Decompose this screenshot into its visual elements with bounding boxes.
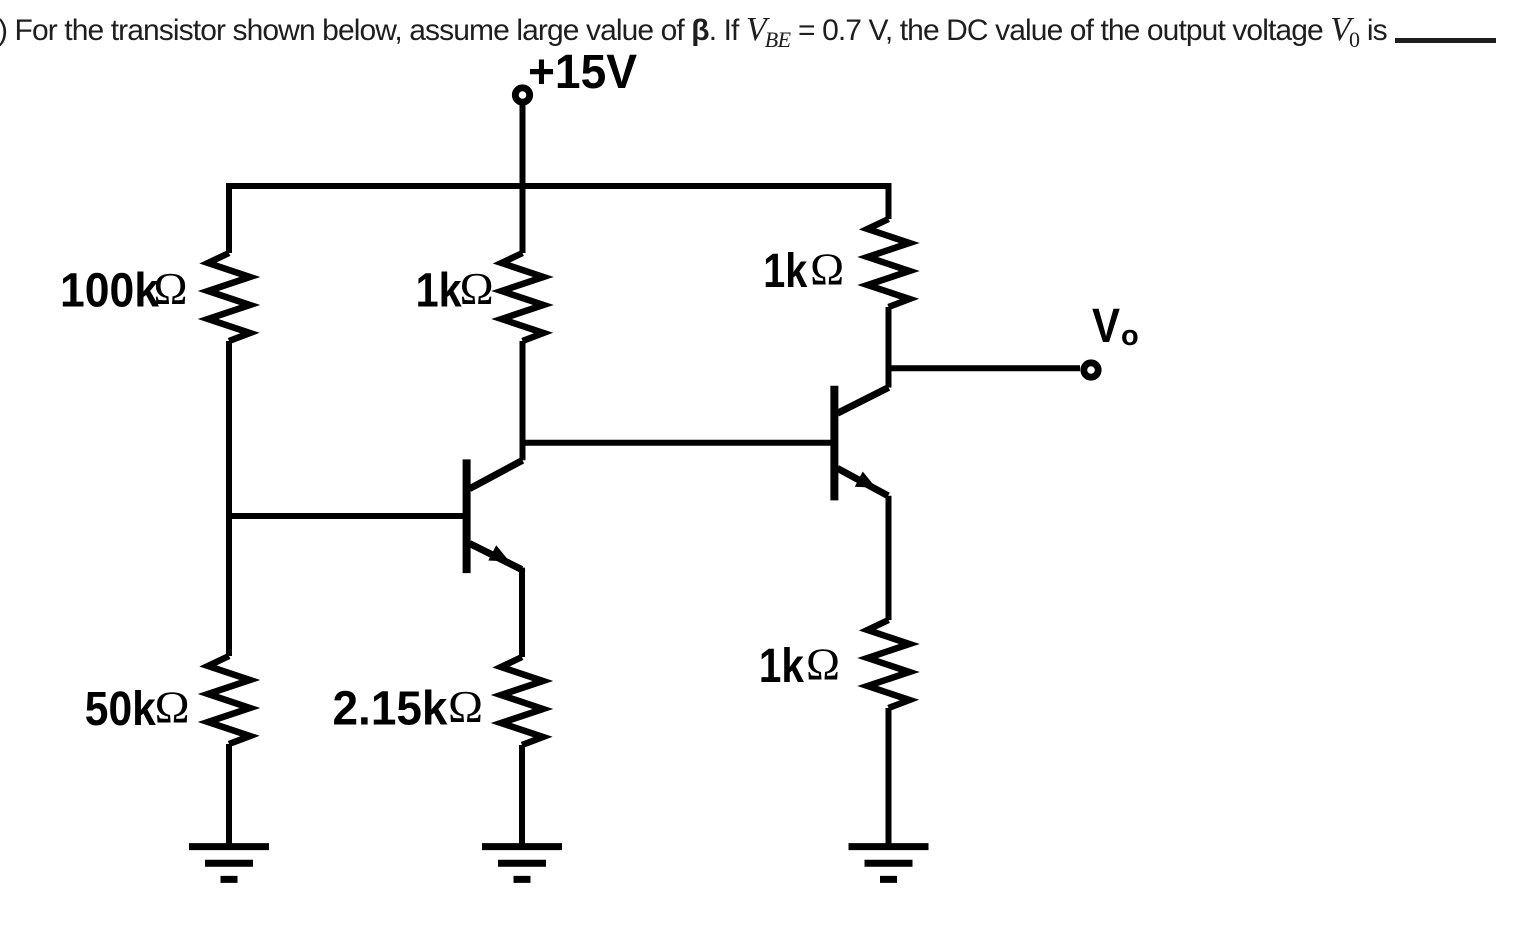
svg-text:V: V — [1092, 300, 1120, 353]
wire mid collector — [520, 341, 526, 460]
svg-text:1k: 1k — [759, 640, 804, 693]
question text — [0, 6, 1532, 54]
resistor R2 50k zigzag — [208, 656, 250, 744]
transistor Q2 — [834, 386, 888, 501]
svg-text:Ω: Ω — [154, 263, 188, 314]
wire right branch lower — [886, 708, 892, 847]
transistor Q1 — [467, 459, 523, 573]
svg-text:Ω: Ω — [460, 263, 494, 314]
wire left branch lower — [226, 744, 232, 847]
node Vo output terminal — [1084, 363, 1098, 377]
wire top rail — [229, 183, 889, 189]
wire Q1 collector to Q2 base — [523, 440, 835, 446]
svg-text:Ω: Ω — [155, 682, 190, 733]
node +15V terminal — [515, 88, 529, 102]
wire Q1 emitter down — [519, 568, 525, 657]
wire left branch middle — [226, 341, 232, 656]
wire right collector — [886, 307, 892, 388]
wire mid branch lower — [519, 745, 525, 847]
resistor R6 1k zigzag (right bottom) — [868, 620, 910, 708]
svg-text:1k: 1k — [763, 245, 807, 298]
svg-text:o: o — [1121, 320, 1139, 352]
svg-text:Ω: Ω — [810, 244, 844, 295]
wire Q2 emitter down — [886, 496, 892, 620]
svg-text:+15V: +15V — [528, 46, 637, 99]
wire right branch upper — [886, 183, 892, 219]
resistor R4 2.15k zigzag — [501, 657, 543, 745]
wire Q1 base — [229, 513, 467, 519]
wire +15V feed — [520, 104, 526, 253]
ground (left) — [189, 847, 269, 880]
resistor R1 100k zigzag — [208, 253, 250, 341]
svg-text:Ω: Ω — [806, 639, 840, 690]
svg-text:100k: 100k — [60, 265, 159, 318]
resistor R3 1k zigzag (middle) — [502, 253, 544, 341]
wire output — [889, 365, 1081, 371]
svg-text:50k: 50k — [85, 683, 156, 736]
svg-text:Ω: Ω — [448, 681, 483, 732]
svg-text:1k: 1k — [416, 265, 462, 318]
ground (right) — [849, 847, 929, 880]
resistor R5 1k zigzag (right top) — [868, 219, 910, 307]
svg-text:2.15k: 2.15k — [333, 683, 448, 736]
wire left branch upper — [226, 183, 232, 253]
ground (middle) — [482, 847, 562, 880]
